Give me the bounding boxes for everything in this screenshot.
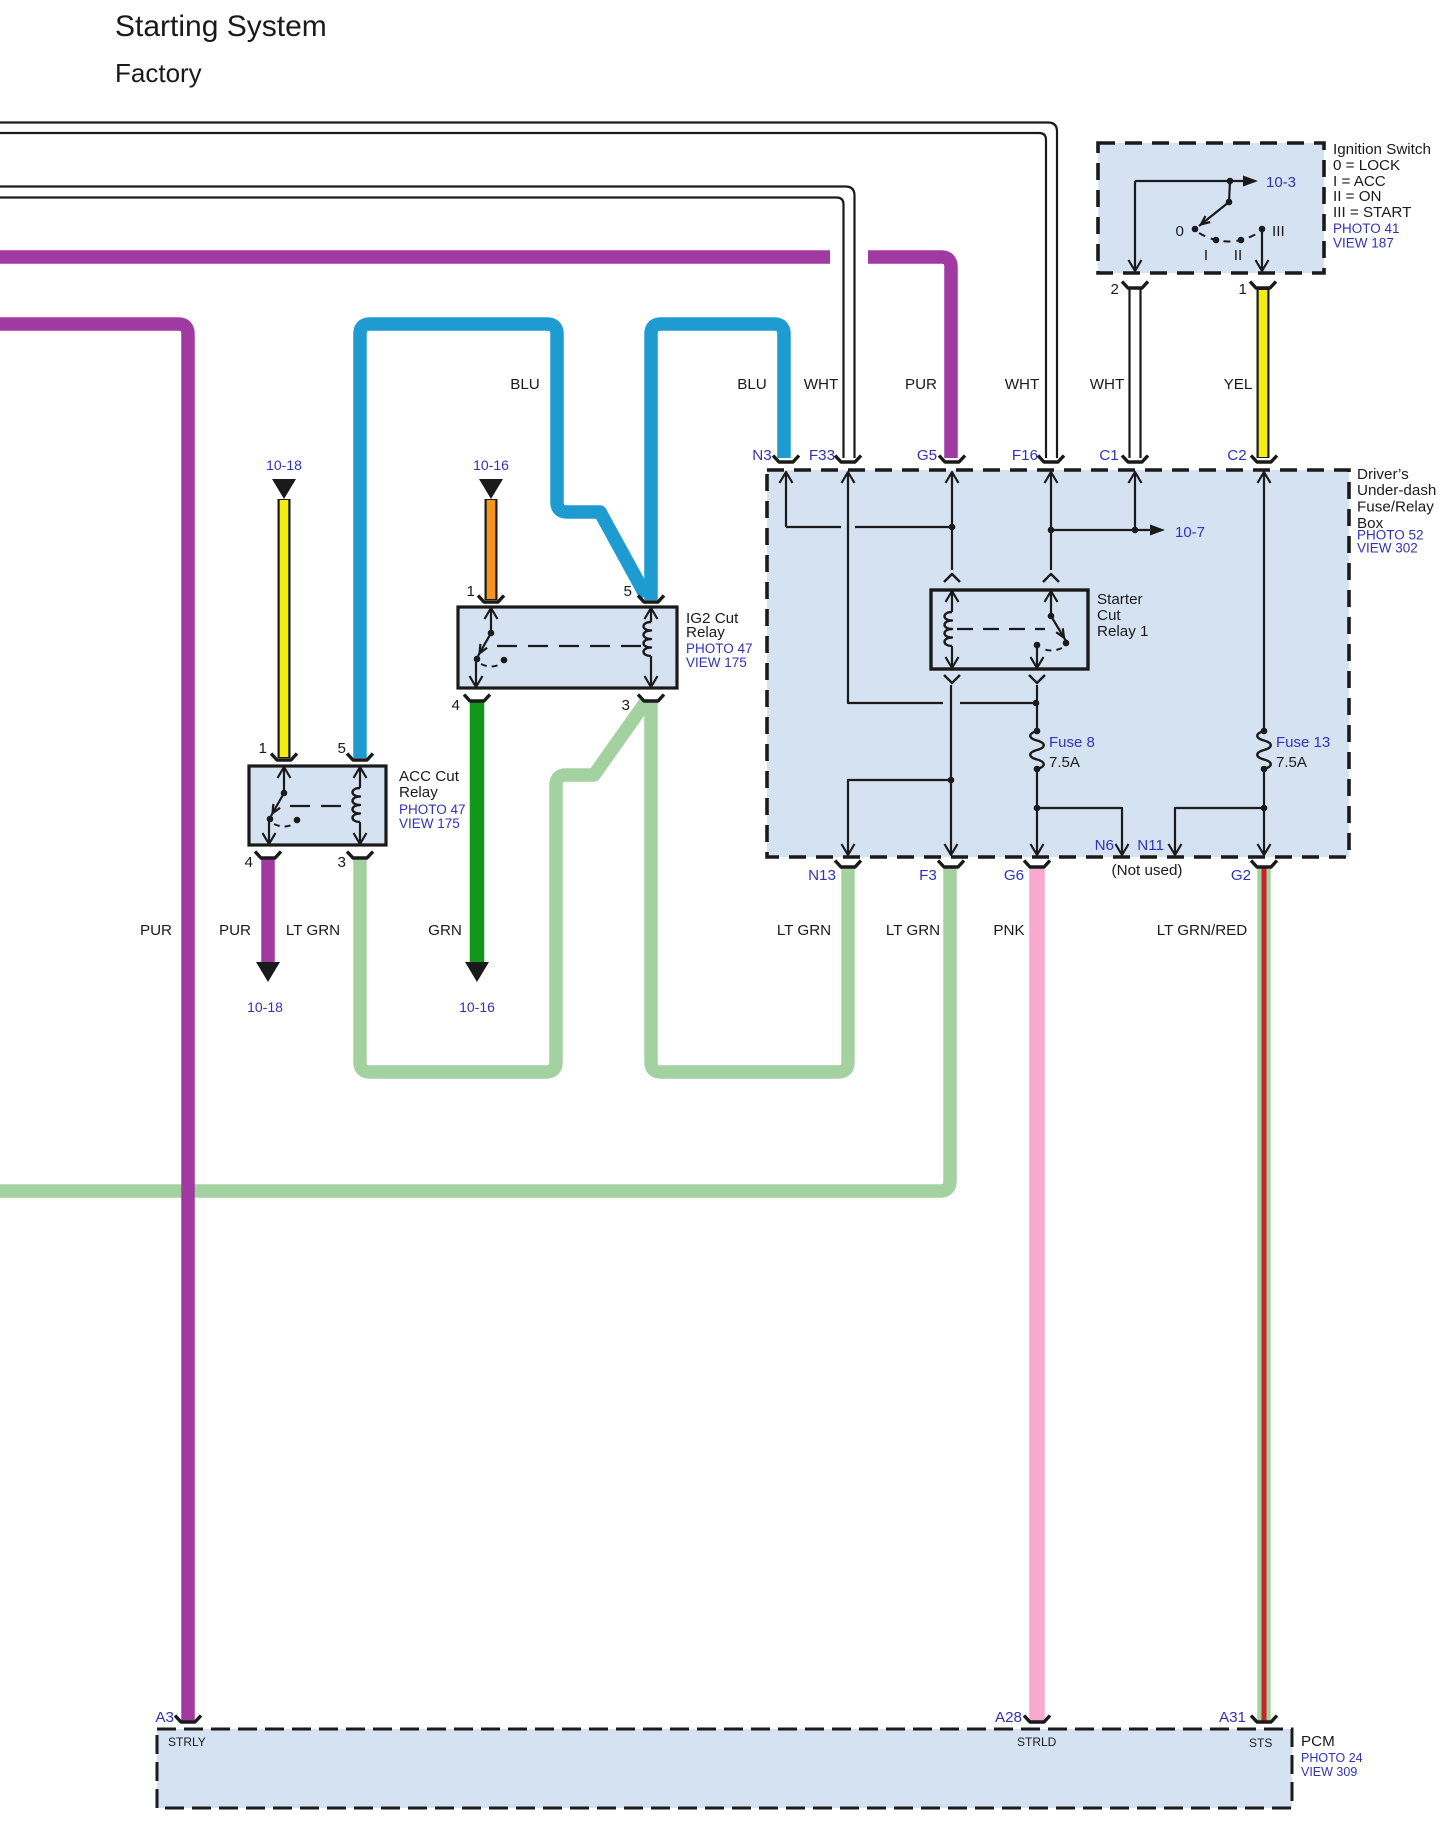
svg-text:Relay: Relay <box>399 784 438 801</box>
svg-text:7.5A: 7.5A <box>1049 754 1080 771</box>
svg-text:Fuse 13: Fuse 13 <box>1276 734 1330 751</box>
svg-text:F33: F33 <box>809 447 835 464</box>
svg-text:A28: A28 <box>995 1709 1022 1726</box>
svg-text:F3: F3 <box>919 867 937 884</box>
svg-text:10-18: 10-18 <box>266 457 302 473</box>
svg-text:1: 1 <box>1239 281 1247 298</box>
svg-text:VIEW 302: VIEW 302 <box>1357 541 1418 556</box>
svg-text:VIEW 175: VIEW 175 <box>686 655 747 670</box>
svg-text:YEL: YEL <box>1224 376 1253 393</box>
svg-text:II: II <box>1234 247 1242 264</box>
svg-text:5: 5 <box>338 740 346 757</box>
svg-text:N11: N11 <box>1137 837 1164 854</box>
svg-text:STRLY: STRLY <box>168 1735 206 1749</box>
svg-text:C2: C2 <box>1227 447 1246 464</box>
svg-text:II = ON: II = ON <box>1333 188 1382 205</box>
svg-text:Factory: Factory <box>115 58 202 88</box>
svg-text:STRLD: STRLD <box>1017 1735 1057 1749</box>
svg-text:BLU: BLU <box>510 376 540 393</box>
svg-text:N6: N6 <box>1095 837 1114 854</box>
svg-text:A31: A31 <box>1219 1709 1246 1726</box>
svg-text:PHOTO 41: PHOTO 41 <box>1333 221 1400 236</box>
svg-text:LT GRN: LT GRN <box>286 922 340 939</box>
svg-text:WHT: WHT <box>1090 376 1125 393</box>
svg-text:G2: G2 <box>1231 867 1251 884</box>
svg-text:4: 4 <box>452 697 460 714</box>
svg-text:PUR: PUR <box>140 922 172 939</box>
svg-text:Relay 1: Relay 1 <box>1097 623 1149 640</box>
svg-text:III = START: III = START <box>1333 204 1411 221</box>
svg-text:PUR: PUR <box>905 376 937 393</box>
svg-text:(Not used): (Not used) <box>1112 862 1183 879</box>
svg-text:WHT: WHT <box>1005 376 1040 393</box>
svg-text:PHOTO 47: PHOTO 47 <box>686 641 753 656</box>
svg-text:Under-dash: Under-dash <box>1357 482 1436 499</box>
svg-text:Starting System: Starting System <box>115 10 327 43</box>
svg-text:LT GRN: LT GRN <box>886 922 940 939</box>
svg-text:Fuse/Relay: Fuse/Relay <box>1357 499 1434 516</box>
svg-text:ACC Cut: ACC Cut <box>399 768 460 785</box>
svg-text:I: I <box>1204 247 1208 264</box>
svg-text:F16: F16 <box>1012 447 1038 464</box>
svg-text:LT GRN: LT GRN <box>777 922 831 939</box>
svg-text:4: 4 <box>245 854 253 871</box>
svg-text:LT GRN/RED: LT GRN/RED <box>1157 922 1248 939</box>
svg-text:A3: A3 <box>155 1709 174 1726</box>
svg-text:BLU: BLU <box>737 376 767 393</box>
svg-text:Starter: Starter <box>1097 591 1143 608</box>
svg-text:GRN: GRN <box>428 922 462 939</box>
svg-text:Cut: Cut <box>1097 607 1121 624</box>
svg-text:10-16: 10-16 <box>473 457 509 473</box>
svg-text:5: 5 <box>624 583 632 600</box>
svg-text:VIEW 309: VIEW 309 <box>1301 1765 1357 1779</box>
svg-text:VIEW 187: VIEW 187 <box>1333 236 1394 251</box>
svg-text:G5: G5 <box>917 447 937 464</box>
svg-text:0 = LOCK: 0 = LOCK <box>1333 157 1400 174</box>
svg-text:G6: G6 <box>1004 867 1024 884</box>
svg-text:2: 2 <box>1111 281 1119 298</box>
svg-text:10-3: 10-3 <box>1266 174 1296 191</box>
svg-text:PHOTO 24: PHOTO 24 <box>1301 1751 1363 1765</box>
svg-text:10-16: 10-16 <box>459 999 495 1015</box>
svg-text:1: 1 <box>467 583 475 600</box>
svg-text:PHOTO 47: PHOTO 47 <box>399 802 466 817</box>
svg-text:1: 1 <box>259 740 267 757</box>
svg-text:10-18: 10-18 <box>247 999 283 1015</box>
svg-text:N3: N3 <box>752 447 771 464</box>
svg-text:Driver’s: Driver’s <box>1357 466 1409 483</box>
svg-text:STS: STS <box>1249 1736 1272 1750</box>
svg-text:3: 3 <box>622 697 630 714</box>
svg-text:PUR: PUR <box>219 922 251 939</box>
svg-text:3: 3 <box>338 854 346 871</box>
svg-text:PNK: PNK <box>993 922 1024 939</box>
svg-text:0: 0 <box>1176 223 1184 240</box>
svg-text:III: III <box>1272 223 1285 240</box>
svg-text:WHT: WHT <box>804 376 839 393</box>
svg-text:C1: C1 <box>1099 447 1118 464</box>
svg-text:10-7: 10-7 <box>1175 524 1205 541</box>
svg-text:PCM: PCM <box>1301 1733 1335 1750</box>
svg-text:Relay: Relay <box>686 624 725 641</box>
svg-text:Ignition Switch: Ignition Switch <box>1333 141 1431 158</box>
svg-text:N13: N13 <box>808 867 836 884</box>
svg-text:7.5A: 7.5A <box>1276 754 1307 771</box>
svg-text:VIEW 175: VIEW 175 <box>399 816 460 831</box>
svg-text:Fuse 8: Fuse 8 <box>1049 734 1095 751</box>
